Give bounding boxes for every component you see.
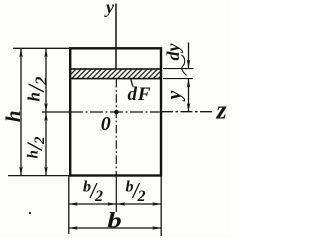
origin dot bbox=[114, 110, 119, 115]
hatched strip dF bbox=[70, 69, 161, 79]
svg-text:dF: dF bbox=[128, 84, 152, 105]
svg-text:2: 2 bbox=[32, 76, 51, 86]
svg-text:h: h bbox=[26, 150, 42, 158]
top extension line (left) bbox=[13, 47, 70, 49]
svg-text:h: h bbox=[1, 110, 25, 122]
svg-text:y: y bbox=[164, 90, 186, 101]
svg-text:2: 2 bbox=[137, 188, 146, 205]
vertical centerline (dash-dot) bbox=[115, 79, 117, 176]
y dimension line (right) bbox=[188, 79, 190, 112]
h/2 label lower (rotated fraction) bbox=[26, 136, 49, 159]
svg-text:b: b bbox=[126, 179, 134, 196]
bottom extension line (left) bbox=[8, 175, 70, 177]
svg-text:b: b bbox=[107, 208, 121, 233]
svg-text:0: 0 bbox=[101, 113, 111, 135]
b/2 label right (fraction) bbox=[126, 179, 146, 206]
z centerline left extension bbox=[42, 111, 70, 113]
right extension line below rectangle bbox=[160, 176, 162, 236]
b/2 dimension line bbox=[69, 203, 161, 205]
svg-text:h: h bbox=[25, 92, 44, 101]
b/2 label left (fraction) bbox=[83, 179, 103, 206]
svg-text:y: y bbox=[104, 0, 115, 17]
y axis bbox=[115, 4, 117, 70]
svg-text:b: b bbox=[83, 179, 91, 196]
h dimension line bbox=[20, 48, 22, 175]
cross-section rectangle outline bbox=[70, 48, 161, 175]
svg-text:2: 2 bbox=[32, 136, 48, 145]
y dimension label (rotated) bbox=[164, 90, 186, 101]
strip bottom extension line (right) bbox=[163, 78, 193, 80]
dy dimension line upper part bbox=[188, 43, 190, 69]
b dimension line bbox=[69, 227, 161, 229]
left extension line below rectangle bbox=[68, 176, 70, 234]
strip top extension line (right) bbox=[163, 68, 194, 70]
vertical extension below rectangle (center) bbox=[115, 176, 117, 213]
h/2 dimension line upper segment bbox=[45, 48, 47, 112]
h/2 label upper (rotated fraction) bbox=[25, 76, 51, 102]
h/2 dimension line lower segment bbox=[45, 112, 47, 176]
dy label (rotated) bbox=[163, 43, 183, 61]
b label bbox=[107, 208, 121, 233]
z axis right of rectangle (dash-dot) bbox=[161, 111, 214, 113]
svg-text:z: z bbox=[216, 96, 228, 125]
h label (rotated) bbox=[1, 110, 25, 122]
svg-text:2: 2 bbox=[94, 188, 103, 205]
z centerline inside rectangle (dash-dot) bbox=[70, 111, 161, 113]
svg-text:dy: dy bbox=[163, 43, 183, 61]
dy label tail flourish bbox=[182, 55, 187, 76]
dF leader line bbox=[131, 79, 133, 87]
stray ink dot bbox=[29, 212, 31, 214]
